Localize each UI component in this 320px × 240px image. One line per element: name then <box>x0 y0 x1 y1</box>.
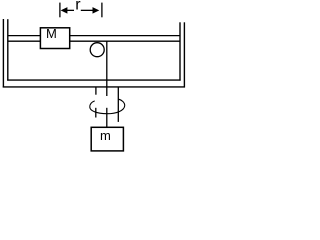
svg-text:r: r <box>75 0 81 14</box>
svg-text:M: M <box>46 26 57 41</box>
svg-text:m: m <box>100 128 111 143</box>
